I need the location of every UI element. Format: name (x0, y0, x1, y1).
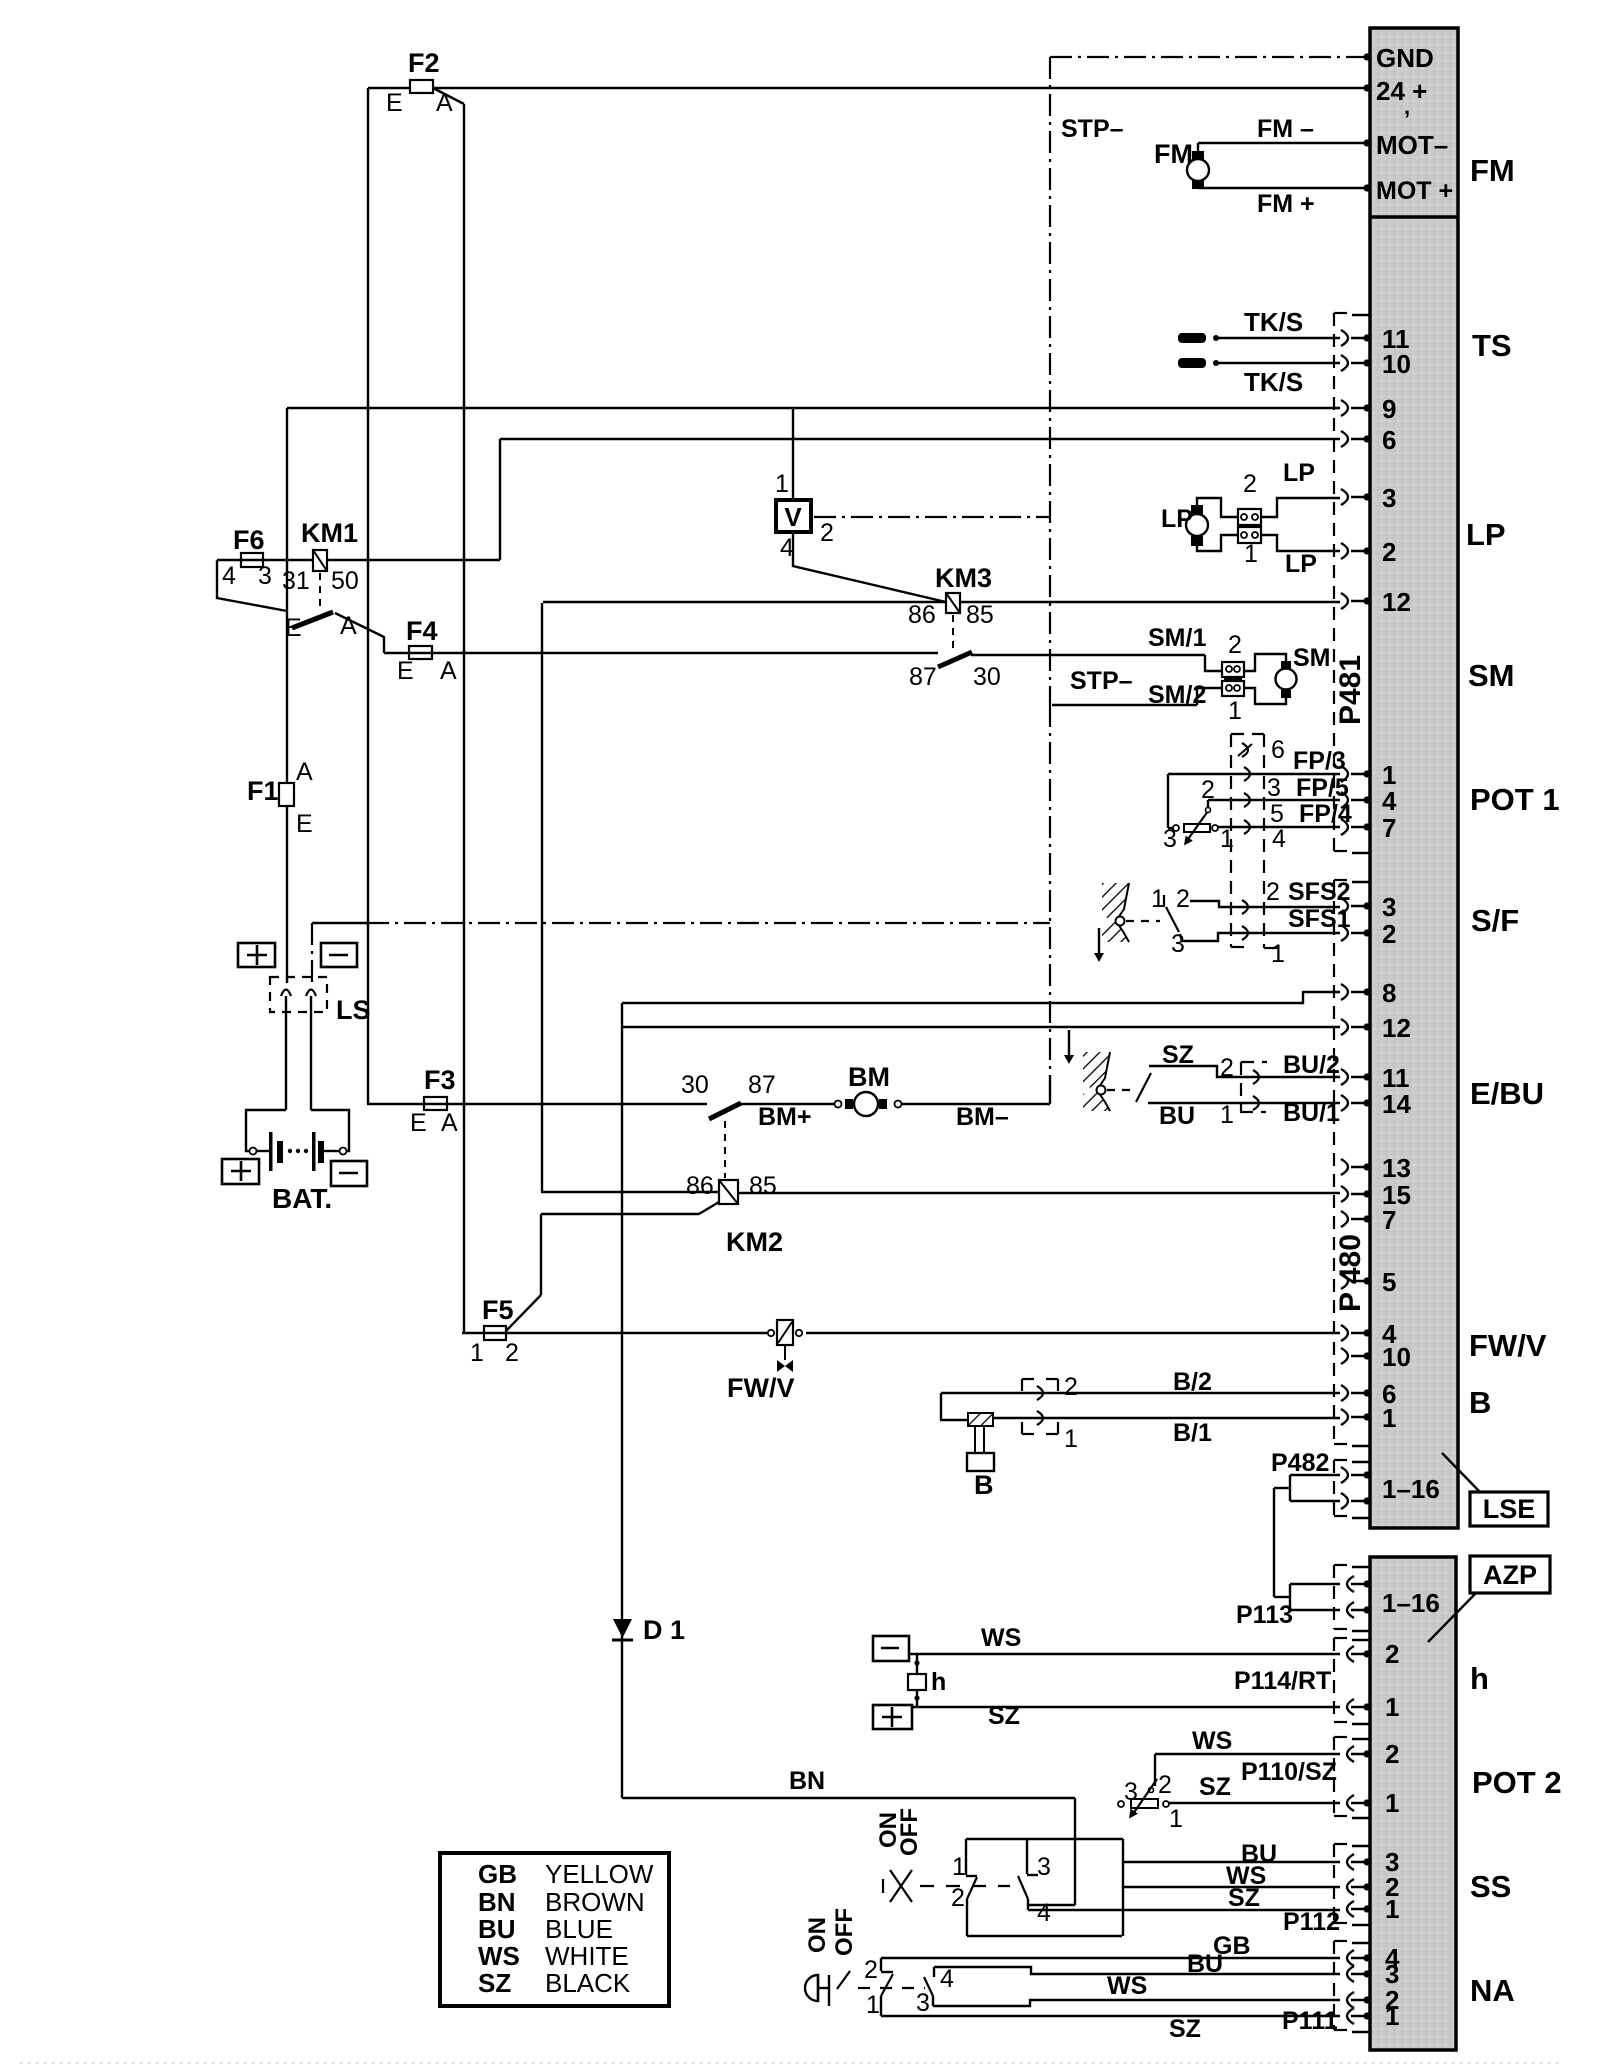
svg-text:BM+: BM+ (758, 1103, 811, 1131)
svg-text:3: 3 (916, 1989, 930, 2017)
svg-text:7: 7 (1382, 813, 1396, 843)
svg-text:3: 3 (1124, 1778, 1138, 1806)
svg-text:24 +: 24 + (1376, 76, 1427, 106)
svg-text:6: 6 (1382, 425, 1396, 455)
svg-text:1: 1 (1220, 1101, 1234, 1129)
svg-text:TK/S: TK/S (1244, 307, 1303, 337)
svg-text:SZ: SZ (988, 1702, 1020, 1730)
svg-text:3: 3 (1171, 930, 1185, 958)
svg-text:TK/S: TK/S (1244, 367, 1303, 397)
svg-text:6: 6 (1271, 736, 1285, 764)
svg-text:86: 86 (686, 1172, 714, 1200)
svg-text:2: 2 (1266, 878, 1280, 906)
svg-text:1–16: 1–16 (1382, 1474, 1440, 1504)
svg-text:4: 4 (1272, 825, 1286, 853)
svg-text:86: 86 (908, 601, 936, 629)
svg-text:85: 85 (749, 1172, 777, 1200)
svg-text:GND: GND (1376, 43, 1434, 73)
svg-text:3: 3 (1382, 892, 1396, 922)
svg-text:2: 2 (1228, 631, 1242, 659)
svg-text:1: 1 (1385, 1788, 1399, 1818)
svg-text:S/F: S/F (1471, 903, 1519, 938)
svg-text:BN: BN (478, 1887, 516, 1917)
svg-text:1: 1 (1169, 1805, 1183, 1833)
svg-text:B: B (1469, 1385, 1491, 1420)
svg-text:MOT–: MOT– (1376, 130, 1448, 160)
svg-text:BAT.: BAT. (272, 1183, 332, 1214)
svg-text:E: E (397, 657, 414, 685)
svg-text:P482: P482 (1271, 1449, 1329, 1477)
svg-text:1: 1 (775, 470, 789, 498)
svg-text:h: h (931, 1668, 946, 1696)
svg-text:POT 2: POT 2 (1472, 1765, 1562, 1800)
svg-text:1: 1 (1151, 885, 1165, 913)
svg-text:OFF: OFF (896, 1808, 923, 1856)
svg-text:2: 2 (1064, 1373, 1078, 1401)
svg-text:1: 1 (1271, 940, 1285, 968)
svg-text:BU: BU (1187, 1950, 1223, 1978)
svg-text:1: 1 (866, 1991, 880, 2019)
svg-text:3: 3 (258, 562, 272, 590)
svg-text:F3: F3 (424, 1065, 456, 1095)
svg-text:BU: BU (1159, 1102, 1195, 1130)
svg-text:E/BU: E/BU (1470, 1076, 1544, 1111)
svg-text:12: 12 (1382, 587, 1411, 617)
svg-text:3: 3 (1267, 774, 1281, 802)
svg-text:STP–: STP– (1070, 667, 1133, 695)
svg-text:P110/SZ: P110/SZ (1241, 1758, 1337, 1786)
svg-text:P481: P481 (1334, 655, 1367, 725)
svg-text:2: 2 (864, 1956, 878, 1984)
svg-text:F2: F2 (408, 48, 440, 78)
svg-text:3: 3 (1382, 483, 1396, 513)
svg-text:LP: LP (1283, 459, 1315, 487)
svg-text:1: 1 (952, 1853, 966, 1881)
svg-text:1–16: 1–16 (1382, 1588, 1440, 1618)
svg-text:POT 1: POT 1 (1470, 782, 1560, 817)
svg-text:SM: SM (1468, 658, 1515, 693)
svg-text:1: 1 (1228, 697, 1242, 725)
svg-text:SM/1: SM/1 (1148, 624, 1206, 652)
svg-text:BLACK: BLACK (545, 1968, 631, 1998)
svg-text:13: 13 (1382, 1153, 1411, 1183)
svg-text:WS: WS (981, 1624, 1021, 1652)
svg-text:SFS2: SFS2 (1288, 878, 1351, 906)
svg-text:SZ: SZ (1162, 1041, 1194, 1069)
svg-text:V: V (784, 502, 802, 532)
svg-text:A: A (440, 657, 457, 685)
svg-text:3: 3 (1163, 825, 1177, 853)
svg-text:P113: P113 (1236, 1601, 1293, 1629)
svg-text:BM: BM (848, 1062, 890, 1092)
svg-text:GB: GB (478, 1859, 517, 1889)
svg-text:F1: F1 (247, 776, 279, 806)
svg-text:FP/4: FP/4 (1299, 800, 1352, 828)
svg-text:B: B (974, 1470, 994, 1500)
svg-text:10: 10 (1382, 349, 1411, 379)
svg-text:FP/5: FP/5 (1296, 774, 1349, 802)
svg-text:FM +: FM + (1257, 190, 1315, 218)
svg-text:MOT +: MOT + (1376, 177, 1453, 205)
svg-text:1: 1 (1244, 540, 1258, 568)
svg-text:2: 2 (1382, 537, 1396, 567)
svg-text:FW/V: FW/V (1469, 1328, 1547, 1363)
svg-text:LP: LP (1466, 517, 1506, 552)
svg-text:87: 87 (748, 1071, 776, 1099)
svg-text:P114/RT: P114/RT (1234, 1667, 1331, 1695)
svg-text:E: E (386, 89, 403, 117)
svg-text:WS: WS (478, 1941, 520, 1971)
svg-text:BROWN: BROWN (545, 1887, 645, 1917)
svg-text:1: 1 (1385, 1894, 1399, 1924)
svg-text:2: 2 (1385, 1639, 1399, 1669)
svg-text:LS: LS (336, 995, 371, 1025)
svg-text:BM–: BM– (956, 1103, 1009, 1131)
svg-text:4: 4 (222, 562, 236, 590)
svg-text:4: 4 (1037, 1899, 1051, 1927)
svg-text:A: A (441, 1109, 458, 1137)
svg-text:KM3: KM3 (935, 563, 992, 593)
svg-text:NA: NA (1470, 1973, 1515, 2008)
svg-text:,: , (1404, 94, 1410, 119)
svg-text:KM1: KM1 (301, 518, 358, 548)
svg-text:D 1: D 1 (643, 1615, 685, 1645)
svg-text:SZ: SZ (478, 1968, 511, 1998)
svg-text:1: 1 (470, 1339, 484, 1367)
svg-text:B/1: B/1 (1173, 1419, 1212, 1447)
svg-text:2: 2 (1158, 1771, 1172, 1799)
svg-text:F4: F4 (406, 616, 438, 646)
svg-text:9: 9 (1382, 394, 1396, 424)
svg-text:5: 5 (1270, 800, 1284, 828)
svg-text:BU: BU (478, 1914, 516, 1944)
svg-text:KM2: KM2 (726, 1227, 783, 1257)
svg-text:SS: SS (1470, 1869, 1511, 1904)
svg-text:2: 2 (1382, 919, 1396, 949)
svg-text:F5: F5 (482, 1295, 514, 1325)
svg-text:2: 2 (951, 1884, 965, 1912)
svg-text:5: 5 (1382, 1267, 1396, 1297)
svg-text:2: 2 (505, 1339, 519, 1367)
svg-text:50: 50 (331, 567, 359, 595)
svg-text:P 480: P 480 (1334, 1234, 1367, 1312)
svg-text:30: 30 (681, 1071, 709, 1099)
svg-text:1: 1 (1385, 2001, 1399, 2031)
svg-text:FP/3: FP/3 (1293, 747, 1346, 775)
svg-text:7: 7 (1382, 1205, 1396, 1235)
svg-text:87: 87 (909, 663, 937, 691)
svg-text:2: 2 (1243, 470, 1257, 498)
svg-text:4: 4 (1382, 786, 1397, 816)
svg-text:4: 4 (940, 1965, 954, 1993)
svg-text:FM: FM (1154, 139, 1193, 169)
svg-text:12: 12 (1382, 1013, 1411, 1043)
svg-text:1: 1 (1385, 1692, 1399, 1722)
svg-text:WS: WS (1107, 1972, 1147, 2000)
svg-text:3: 3 (1037, 1853, 1051, 1881)
svg-text:2: 2 (1220, 1054, 1234, 1082)
svg-text:A: A (296, 758, 313, 786)
svg-text:FM: FM (1470, 153, 1515, 188)
svg-text:2: 2 (1385, 1739, 1399, 1769)
svg-text:LP: LP (1285, 550, 1317, 578)
svg-text:ON: ON (804, 1917, 831, 1953)
svg-text:LSE: LSE (1483, 1494, 1536, 1524)
svg-text:WS: WS (1192, 1727, 1232, 1755)
svg-text:E: E (410, 1109, 427, 1137)
svg-text:OFF: OFF (831, 1908, 858, 1956)
svg-text:14: 14 (1382, 1089, 1411, 1119)
svg-text:1: 1 (1382, 1403, 1396, 1433)
svg-text:SZ: SZ (1199, 1773, 1231, 1801)
svg-text:85: 85 (966, 601, 994, 629)
svg-text:B/2: B/2 (1173, 1368, 1212, 1396)
svg-text:BLUE: BLUE (545, 1914, 613, 1944)
svg-text:AZP: AZP (1483, 1560, 1537, 1590)
svg-text:F6: F6 (233, 525, 265, 555)
svg-text:STP–: STP– (1061, 115, 1124, 143)
svg-text:TS: TS (1472, 328, 1512, 363)
svg-text:SM: SM (1293, 644, 1331, 672)
svg-text:WHITE: WHITE (545, 1941, 629, 1971)
svg-text:FM –: FM – (1257, 115, 1314, 143)
svg-text:1: 1 (1064, 1425, 1078, 1453)
svg-text:SFS1: SFS1 (1288, 905, 1351, 933)
svg-text:BU/2: BU/2 (1283, 1051, 1340, 1079)
svg-text:8: 8 (1382, 978, 1396, 1008)
svg-text:h: h (1470, 1661, 1489, 1696)
svg-text:SZ: SZ (1169, 2015, 1201, 2043)
svg-text:10: 10 (1382, 1342, 1411, 1372)
svg-text:E: E (296, 810, 313, 838)
svg-text:LP: LP (1161, 505, 1193, 533)
svg-text:P111: P111 (1282, 2007, 1338, 2035)
svg-text:P112: P112 (1283, 1908, 1340, 1936)
svg-text:SZ: SZ (1228, 1884, 1260, 1912)
svg-text:BN: BN (789, 1767, 825, 1795)
svg-text:YELLOW: YELLOW (545, 1859, 654, 1889)
svg-text:2: 2 (820, 519, 834, 547)
svg-text:FW/V: FW/V (727, 1373, 795, 1403)
svg-text:30: 30 (973, 663, 1001, 691)
svg-text:BU/1: BU/1 (1283, 1099, 1340, 1127)
svg-text:2: 2 (1201, 776, 1215, 804)
svg-text:2: 2 (1176, 885, 1190, 913)
